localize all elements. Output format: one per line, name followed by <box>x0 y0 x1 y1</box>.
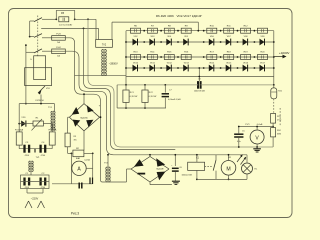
junction tap x83.5 <box>83 28 85 30</box>
motor M1 <box>221 157 236 175</box>
bridge2 bar SW <box>138 173 146 175</box>
wire VD1 feed <box>18 104 20 132</box>
svg-text:0,1к: 0,1к <box>237 141 241 143</box>
svg-text:36М: 36М <box>277 134 281 136</box>
svg-text:КУ202Н: КУ202Н <box>36 100 44 102</box>
resistor R18 row2 <box>224 52 234 60</box>
svg-text:1000мк 16В: 1000мк 16В <box>182 174 193 176</box>
thyristor VS1 KU202N <box>36 86 51 102</box>
junction R23 R24 <box>272 126 274 128</box>
junction R2 left <box>71 153 73 155</box>
motor arrows <box>237 155 246 165</box>
junction C5 top <box>238 126 240 148</box>
junction C6 top <box>174 154 176 156</box>
capacitor C10 small <box>90 178 93 185</box>
svg-text:+3200V: +3200V <box>279 51 289 55</box>
ground under voltmeter <box>253 147 261 152</box>
junction input B2 <box>25 103 27 105</box>
resistor R20 row2 <box>258 52 268 60</box>
junction voltmeter <box>256 126 258 148</box>
svg-text:VD17: VD17 <box>260 62 266 64</box>
diode VD1 <box>21 117 26 127</box>
diode VD8 <box>243 36 249 45</box>
diode VD14 <box>209 62 215 71</box>
wire bus3 <box>84 28 176 149</box>
label 0-25A <box>84 158 90 161</box>
svg-text:0-25A: 0-25A <box>84 158 90 161</box>
resistor R16 row2 <box>181 52 191 60</box>
junction mid tap <box>198 67 200 77</box>
svg-text:КЦ405Б: КЦ405Б <box>80 117 88 119</box>
capacitor C1 <box>25 173 30 189</box>
svg-text:1,6 Ом 150Вт: 1,6 Ом 150Вт <box>59 24 73 26</box>
label ~2800V <box>109 62 118 66</box>
wire row2 mid tap <box>198 68 200 81</box>
junction bus A left <box>125 84 275 86</box>
resistor R24 <box>271 123 282 137</box>
diode VD2 <box>133 36 139 45</box>
capacitor C5 <box>234 127 245 148</box>
resistor R9 row1 <box>181 25 191 33</box>
wire R5 bypass loop <box>56 10 74 19</box>
resistor R19 row2 <box>241 52 251 60</box>
wire ladder row1 diodes <box>126 41 274 43</box>
wire R5 output to TV2 <box>75 19 96 39</box>
resistor R6 row1 <box>131 25 141 33</box>
switch SA1 contact 3 <box>26 49 52 53</box>
svg-text:VD10: VD10 <box>133 62 139 64</box>
wire ladder bottom <box>126 76 274 78</box>
junction K1 top <box>196 154 198 156</box>
border frame <box>9 9 293 218</box>
junction bridge2 top <box>149 154 151 156</box>
diode VD16 <box>243 62 249 71</box>
wire bus A <box>117 84 274 86</box>
fuse FU2 <box>48 129 57 145</box>
capacitor C3 <box>25 142 30 157</box>
resistor R3 <box>65 133 77 147</box>
transformer TV4 label <box>35 157 40 159</box>
resistor R11 row1 <box>224 25 234 33</box>
switch SA1 contact 1 <box>34 18 56 22</box>
wire bridge1 top <box>83 94 85 103</box>
diode VD11 <box>149 62 155 71</box>
diode VD5 <box>183 36 189 45</box>
label ~220V <box>31 197 39 201</box>
junction K1 bottom <box>196 179 198 181</box>
diode VD10 <box>133 62 139 71</box>
junctions ladder <box>125 30 275 69</box>
wire mid caps down <box>34 149 36 153</box>
diode VD7 <box>226 36 232 45</box>
diode VD9 <box>260 36 266 45</box>
resistor R12 row1 <box>241 25 251 33</box>
relay coil K1 <box>188 157 205 170</box>
resistor R5 <box>59 12 73 26</box>
wire plug neck <box>27 189 43 194</box>
junction input A <box>29 36 31 38</box>
plug prongs <box>25 201 45 208</box>
junction R5 right <box>74 18 76 20</box>
junction bridge1 top <box>83 93 85 95</box>
capacitor C9 blob <box>79 183 82 189</box>
resistor Rx row1 <box>258 28 268 33</box>
junction input B <box>25 44 27 46</box>
svg-text:0,39 5W: 0,39 5W <box>149 96 157 98</box>
svg-text:VD14: VD14 <box>209 62 215 64</box>
wire bridge1 bottom <box>83 131 85 150</box>
bridge1 diode SE <box>86 120 93 127</box>
junction R2 right <box>92 153 94 155</box>
wire thyristor down <box>40 95 42 104</box>
resistor R2 shunt <box>73 148 84 160</box>
junction y103.6 x41 <box>40 103 42 105</box>
svg-text:VD13: VD13 <box>184 62 190 64</box>
wire bridge2 top <box>149 155 151 157</box>
diode VD15 <box>226 62 232 71</box>
wire ladder row2 <box>126 56 274 58</box>
capacitor C2 <box>41 173 46 189</box>
wire ladder left vertical <box>125 31 127 85</box>
bridge1 diode NE <box>87 105 94 112</box>
wire ladder right vertical <box>273 31 275 85</box>
caption Ris.3 <box>71 212 79 216</box>
resistor R14 row2 <box>147 52 157 60</box>
wire ladder row2 diodes <box>126 67 274 69</box>
diode VD4 <box>166 36 172 45</box>
bridge2 diode NE <box>156 158 165 166</box>
wire bus1 FU3 out <box>65 38 104 182</box>
wire voltmeter stubs <box>256 127 258 148</box>
svg-text:1000пФ 3кВ: 1000пФ 3кВ <box>194 89 206 92</box>
svg-text:VD15: VD15 <box>226 62 232 64</box>
wire FU2 down <box>51 145 53 149</box>
bridge1 diode SW <box>73 120 80 127</box>
wire R2 right <box>84 152 93 154</box>
resistor R10 row1 <box>207 25 217 33</box>
junction bridge1 right <box>100 116 102 118</box>
diode VD12 <box>166 62 172 71</box>
resistor R21 probe <box>271 85 283 99</box>
wire cap row2 <box>21 181 50 183</box>
label 0-6kV <box>257 124 263 126</box>
ammeter PA1 <box>72 161 86 175</box>
voltmeter PV1 <box>250 130 264 144</box>
resistor R23 <box>271 114 282 124</box>
svg-text:VD12: VD12 <box>167 62 173 64</box>
svg-text:FU1 30A: FU1 30A <box>15 129 24 132</box>
svg-text:0,01мкФ 6,3кВ: 0,01мкФ 6,3кВ <box>168 98 181 101</box>
junction motor <box>228 154 230 180</box>
resistor R8 row1 <box>164 25 174 33</box>
transformer TV3 <box>104 162 110 182</box>
lamp EL1 <box>242 163 258 174</box>
bridge2 diode NW <box>134 159 144 167</box>
wire left cross y103.6 <box>19 103 54 105</box>
label +3200V <box>279 51 289 55</box>
relay K starter outline <box>25 56 52 86</box>
svg-text:TV2: TV2 <box>102 44 107 46</box>
capacitor C4 <box>41 142 46 157</box>
wire lamp stubs <box>246 155 248 180</box>
filter box <box>21 175 50 189</box>
wire cap row1 <box>19 148 52 150</box>
wire ammeter bottom bus <box>52 183 93 185</box>
capacitor C6 <box>171 155 192 181</box>
svg-text:M: M <box>226 166 230 172</box>
wire bridge1 right <box>100 116 101 118</box>
svg-text:0,39 5W: 0,39 5W <box>130 96 138 98</box>
capacitor C7 <box>162 85 182 108</box>
label PV1 <box>245 124 250 126</box>
wire ammeter right <box>86 153 93 183</box>
resistor R15 row2 <box>164 52 174 60</box>
svg-text:~220V: ~220V <box>31 197 39 201</box>
switch SA1 contact 2 <box>30 34 52 38</box>
resistor R1 variable <box>32 118 44 131</box>
wire bus4 <box>88 19 239 147</box>
resistor R7 row1 <box>147 25 157 33</box>
output arrow <box>274 55 287 59</box>
resistor RC2 <box>142 85 156 108</box>
wire FU1 down <box>18 145 20 149</box>
wire R3 to R2 <box>68 147 72 154</box>
wire motor stubs <box>228 155 230 180</box>
wire bottom bus motor <box>197 178 247 180</box>
svg-text:R6-R20 430K VD2-VD17 КД210Г: R6-R20 430K VD2-VD17 КД210Г <box>156 14 203 18</box>
wire TV1 top <box>53 104 55 112</box>
wire TV3 bottom <box>105 181 109 183</box>
junction ladder mid <box>197 30 199 32</box>
svg-text:VD16: VD16 <box>243 62 249 64</box>
wire bus2 FU4 out <box>65 51 247 155</box>
title text R6-R20 430K VD2-VD17 KD210G <box>156 14 203 18</box>
resistor R13 row2 <box>131 52 141 60</box>
junction R5 left <box>55 18 57 20</box>
junction bus B <box>125 107 146 109</box>
transformer TV1 <box>48 107 55 130</box>
wire K1 top <box>196 155 198 162</box>
switch SA1 gang dashed link <box>37 16 39 57</box>
junction TV3 top <box>107 154 109 156</box>
svg-text:~2800V: ~2800V <box>109 62 118 66</box>
resistor RC1 <box>123 85 137 108</box>
svg-text:270к: 270к <box>277 119 281 121</box>
svg-text:FU2 30A: FU2 30A <box>48 129 57 132</box>
svg-text:0-6кВ: 0-6кВ <box>257 124 263 126</box>
wire TV3 top <box>107 155 109 167</box>
transformer TV4 winding <box>29 161 33 172</box>
diode VD3 <box>149 36 155 45</box>
junction tap x88 <box>87 18 89 20</box>
wire bridge2 bottom <box>150 182 172 185</box>
diode VD13 <box>183 62 189 71</box>
diode VD17 <box>260 62 266 71</box>
fuse FU4 <box>52 47 66 58</box>
wire K1 bottom <box>196 170 198 179</box>
wire input phase vertical <box>30 21 34 37</box>
transformer TV2 winding <box>102 49 107 75</box>
svg-text:КЦ402Е: КЦ402Е <box>156 169 164 171</box>
wire TV2 top rail <box>112 22 198 39</box>
wire TV2 bottom <box>75 75 127 77</box>
wire winding link <box>30 172 32 176</box>
wire bridge2 left <box>108 169 131 182</box>
svg-text:Рис.3: Рис.3 <box>71 212 79 216</box>
resistor R17 row2 <box>207 52 217 60</box>
junction VD1 left <box>18 123 20 125</box>
transformer TV2 box <box>96 40 113 48</box>
bridge2 diode SE <box>157 172 166 181</box>
wire input neutral vertical <box>25 45 27 104</box>
svg-text:39к: 39к <box>74 140 77 142</box>
bridge2 label <box>156 169 164 171</box>
capacitor C8 <box>194 79 206 93</box>
diode VD6 <box>209 36 215 45</box>
fuse FU1 <box>15 129 24 145</box>
bridge2 outline <box>131 157 169 183</box>
wire bridge1 left <box>68 117 70 133</box>
bridge1 diode NW <box>72 107 79 115</box>
wire R24 bottom <box>239 137 273 147</box>
bridge VD KC405 outline <box>69 104 99 131</box>
wire meter top <box>239 126 273 128</box>
wire bus B drop <box>117 85 166 108</box>
relay contact K1.1 <box>205 155 216 180</box>
wire ladder row1 <box>126 30 274 32</box>
ground under C6 <box>172 181 180 184</box>
wire dashed probe <box>274 99 280 127</box>
bridge1 label <box>80 105 100 120</box>
wire ammeter left <box>70 153 72 183</box>
wire VD1 to R1 <box>19 123 33 125</box>
fuse FU3 <box>52 34 66 45</box>
wire R1 to FU2 <box>43 124 52 132</box>
wire switch to TV2 primary <box>41 28 98 39</box>
